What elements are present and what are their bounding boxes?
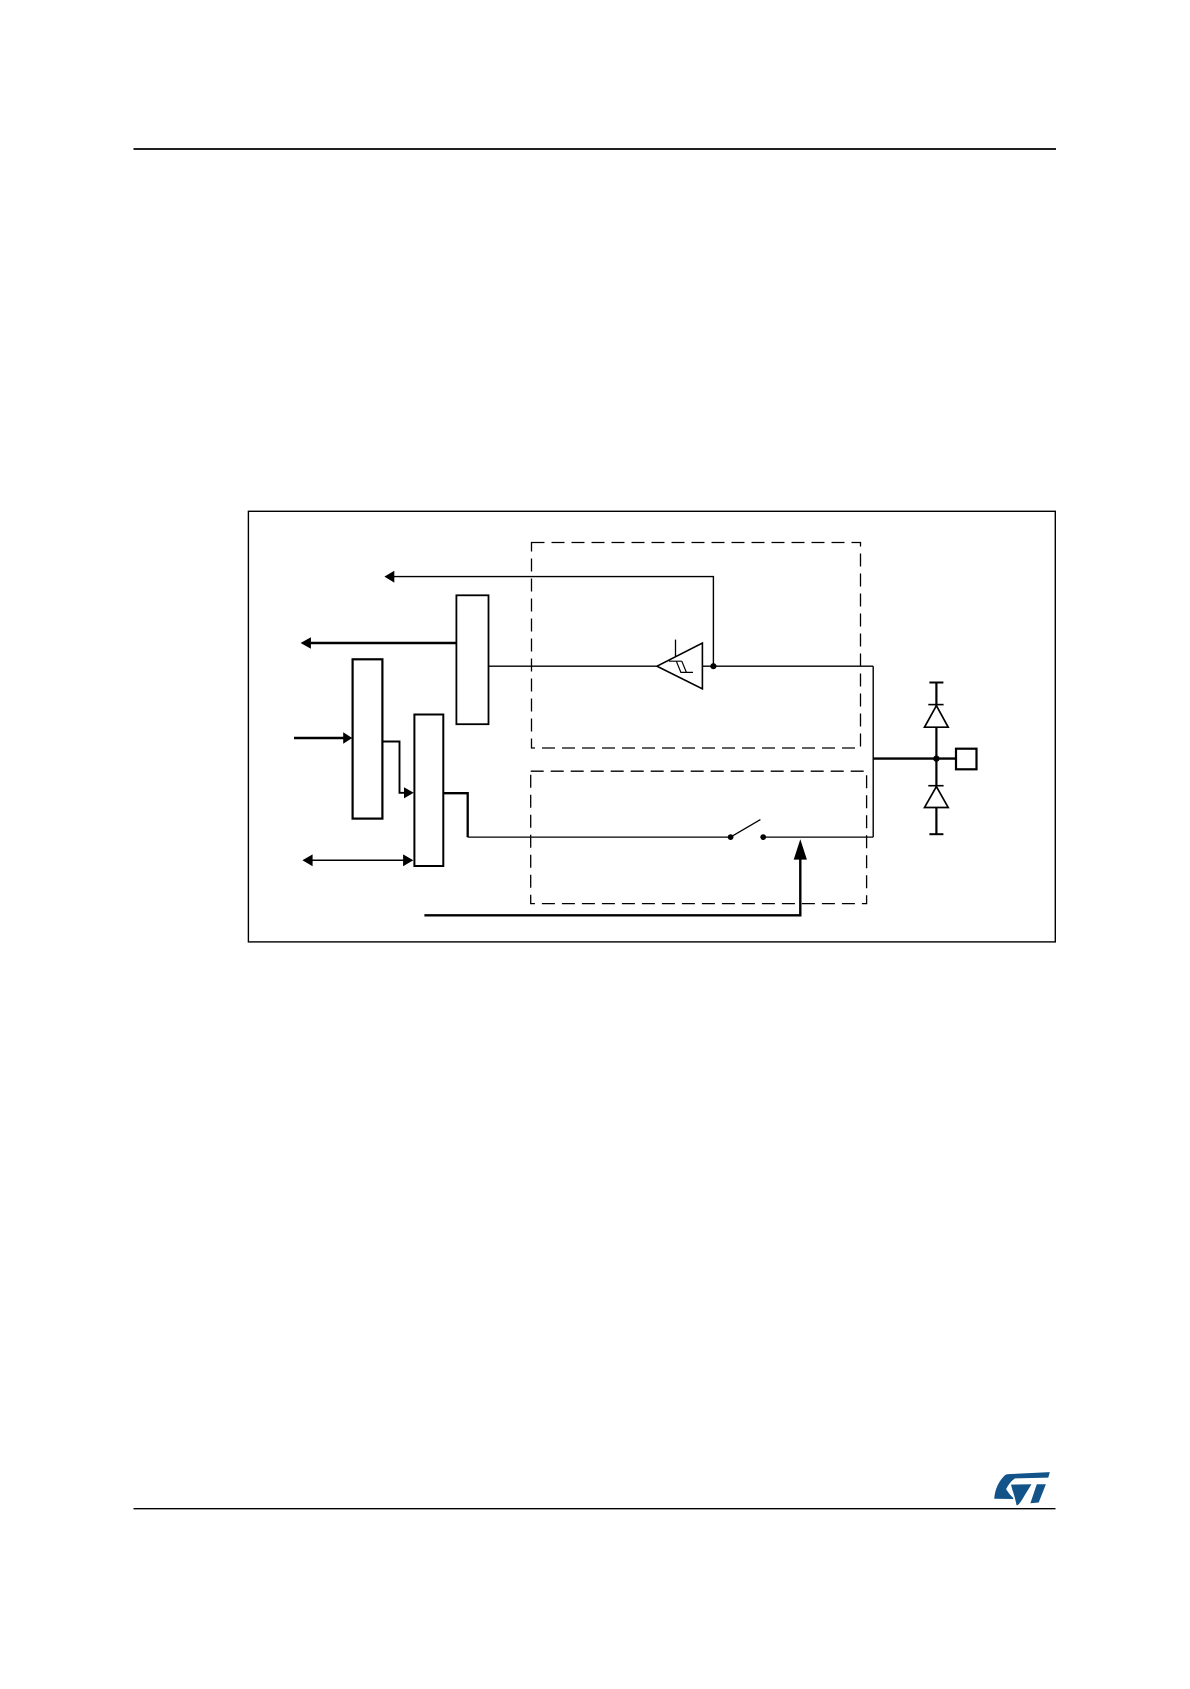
schmitt trigger U1 [657, 643, 702, 689]
wire: read/write bidirectional arrow [310, 859, 406, 861]
diode D2 (protection to VSS) [925, 787, 949, 808]
VSS rail bar [929, 833, 943, 835]
hysteresis symbol [669, 661, 693, 672]
diode D2 cathode bar [928, 785, 943, 787]
wire: output path to switch [468, 836, 731, 838]
VDD rail bar [929, 682, 943, 684]
wire: VSS protection branch [935, 759, 937, 835]
switch SW1 lever [731, 820, 761, 838]
arrowhead: read path [384, 571, 394, 583]
block: bit set/reset register [353, 659, 383, 818]
schmitt trigger enable stub [675, 640, 677, 657]
wire: register C to switch step [443, 793, 467, 837]
arrowhead: data output [301, 637, 311, 649]
diode D1 cathode bar [928, 704, 943, 706]
arrowhead: bidirectional left [302, 854, 312, 866]
dashed box: input driver [532, 543, 861, 749]
arrowhead: bidirectional right [403, 854, 413, 866]
wire: register B to register C step [382, 742, 404, 793]
block: output data register [414, 715, 443, 867]
I/O pad [956, 749, 977, 770]
wire: schmitt input from pad bus [702, 665, 873, 667]
node: schmitt input junction [710, 663, 716, 669]
diode D1 (protection to VDD) [925, 706, 949, 728]
wire: read path (top) [393, 577, 713, 667]
arrowhead: into output data register [404, 787, 414, 798]
ST logo [994, 1472, 1050, 1505]
wire: VDD protection branch [935, 683, 937, 759]
wire: switch control line [424, 858, 800, 915]
node: pad junction [933, 755, 939, 761]
switch SW1 right contact [760, 834, 766, 840]
wire: write input arrow [294, 737, 344, 740]
arrowhead: switch control [794, 839, 807, 859]
header rule [134, 148, 1057, 150]
wire: data output arrow [309, 642, 456, 645]
figure frame [248, 511, 1055, 942]
dashed box: output driver [531, 771, 867, 903]
footer rule [134, 1508, 1056, 1510]
wire: to I/O pad [873, 757, 956, 759]
block: input data register [456, 595, 488, 724]
arrowhead: write input [343, 732, 352, 744]
wire: switch to pad bus [763, 836, 873, 838]
wire: schmitt output to input data register [489, 665, 657, 667]
wire: vertical pad bus [872, 666, 874, 837]
switch SW1 left contact [728, 834, 734, 840]
